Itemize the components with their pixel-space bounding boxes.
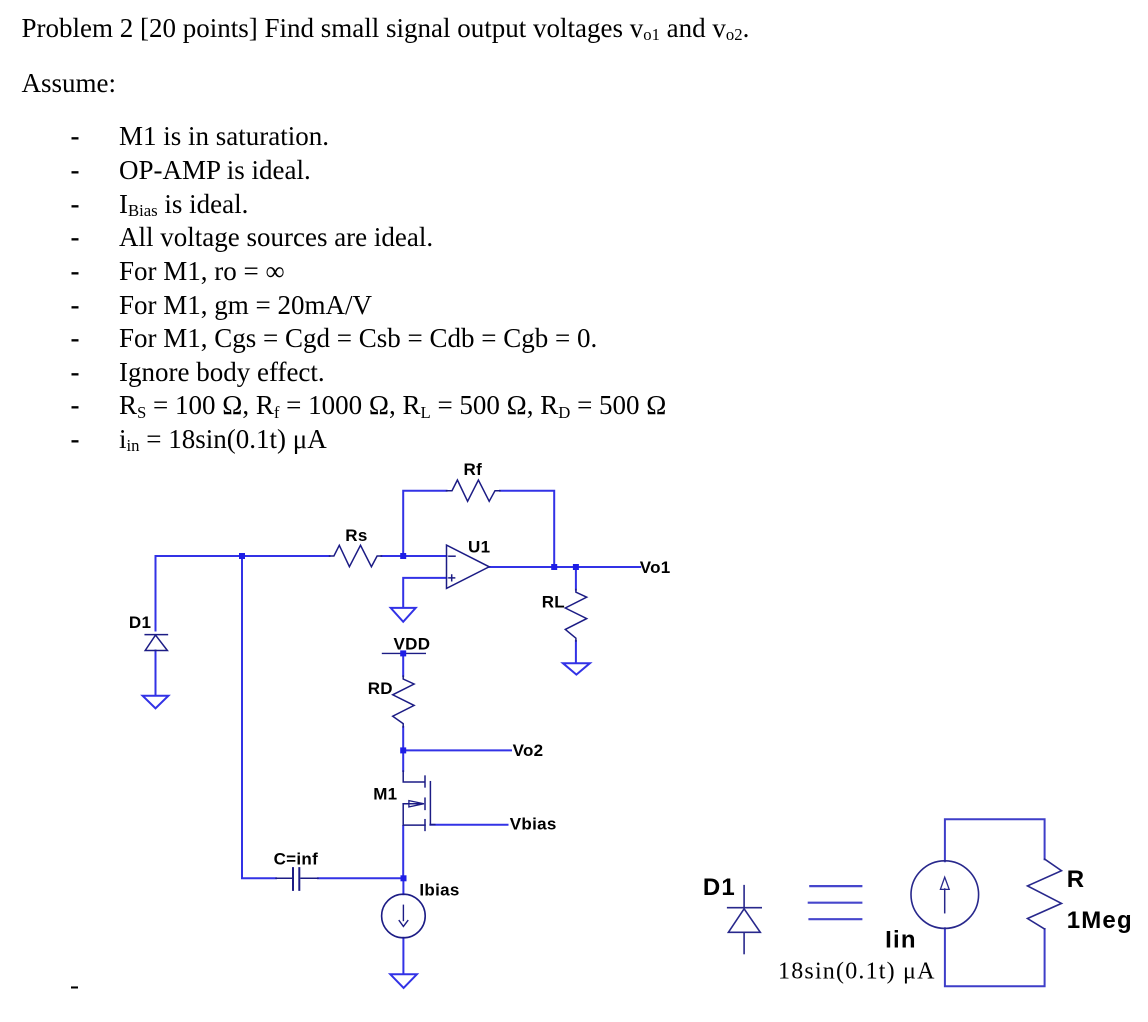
svg-text:U1: U1 <box>468 537 490 556</box>
svg-text:D1: D1 <box>703 874 736 901</box>
svg-text:C=inf: C=inf <box>274 850 319 869</box>
svg-text:Vo2: Vo2 <box>513 741 544 760</box>
svg-text:18sin(0.1t) μA: 18sin(0.1t) μA <box>778 959 936 985</box>
svg-text:Ibias: Ibias <box>419 880 459 899</box>
svg-text:Iin: Iin <box>885 927 917 954</box>
svg-text:RD: RD <box>368 679 393 698</box>
svg-text:VDD: VDD <box>394 635 431 654</box>
svg-text:Rf: Rf <box>464 460 483 479</box>
svg-text:Vbias: Vbias <box>510 815 557 834</box>
svg-text:R: R <box>1067 866 1086 893</box>
svg-text:D1: D1 <box>129 613 151 632</box>
svg-text:1Meg: 1Meg <box>1067 907 1133 934</box>
svg-text:RL: RL <box>542 593 565 612</box>
svg-text:Rs: Rs <box>345 526 367 545</box>
svg-text:M1: M1 <box>373 785 397 804</box>
svg-text:Vo1: Vo1 <box>640 558 671 577</box>
